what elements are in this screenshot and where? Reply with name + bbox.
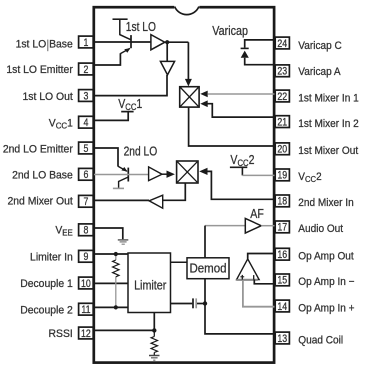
wire limiter to capacitor xyxy=(171,303,193,305)
pin 18 box xyxy=(275,195,289,208)
svg-text:RSSI: RSSI xyxy=(49,328,73,340)
1st mixer box xyxy=(180,87,199,107)
pin 1 box xyxy=(79,36,94,49)
pin 13 box xyxy=(275,332,289,345)
svg-text:Limiter: Limiter xyxy=(134,278,166,293)
wire buffer out xyxy=(165,41,189,43)
op-amp plus input lead xyxy=(241,275,243,280)
svg-text:1st LO Base: 1st LO Base xyxy=(16,38,73,50)
svg-text:17: 17 xyxy=(277,222,287,234)
svg-text:VCC1: VCC1 xyxy=(118,97,142,112)
pin 19 box xyxy=(275,169,289,182)
wire varicap to pin23 xyxy=(245,58,275,65)
buffer U5 left triangle xyxy=(149,195,163,208)
AF amp U6 triangle xyxy=(245,218,261,233)
svg-text:VEE: VEE xyxy=(55,224,73,237)
svg-text:9: 9 xyxy=(83,251,88,263)
wire pin1 to base and buffer xyxy=(94,41,151,43)
svg-text:20: 20 xyxy=(277,144,287,156)
wire limiter to demod xyxy=(171,261,188,263)
wire to 1st mixer top xyxy=(187,42,189,79)
arrow mixer in 1 xyxy=(200,91,207,98)
svg-text:Audio Out: Audio Out xyxy=(298,223,343,236)
wire AF out to pin17 gray xyxy=(261,225,274,227)
arrow mixer in 2 xyxy=(200,100,207,107)
buffer U2 triangle xyxy=(151,35,165,50)
resistor R2 stub xyxy=(153,330,155,336)
svg-text:22: 22 xyxy=(277,91,287,103)
Demod box xyxy=(187,258,229,279)
svg-text:1st LO Emitter: 1st LO Emitter xyxy=(6,64,73,76)
2nd mixer box xyxy=(177,161,198,183)
node dot pin11 xyxy=(114,305,118,309)
arrow into 1st mixer xyxy=(185,79,192,87)
VCC2 stem xyxy=(241,167,243,175)
VCC2 rail bar xyxy=(230,166,247,168)
ground VEE symbol xyxy=(118,240,129,244)
VCC1 rail bar xyxy=(121,111,133,113)
pin 4 box xyxy=(79,116,94,129)
svg-text:11: 11 xyxy=(81,304,91,316)
svg-text:1: 1 xyxy=(83,37,88,49)
pin 12 box xyxy=(79,327,94,340)
svg-text:Decouple 2: Decouple 2 xyxy=(20,304,73,316)
svg-text:8: 8 xyxy=(83,225,88,237)
svg-text:13: 13 xyxy=(277,333,287,345)
svg-text:VCC1: VCC1 xyxy=(49,117,73,130)
wire pin24 to varicap xyxy=(245,40,275,48)
wire buffer out xyxy=(162,173,168,175)
wire limiter bottom to RSSI node xyxy=(153,313,155,331)
svg-text:24: 24 xyxy=(277,38,287,50)
svg-text:2nd Mixer Out: 2nd Mixer Out xyxy=(7,195,72,207)
svg-text:1st Mixer In 2: 1st Mixer In 2 xyxy=(298,118,358,131)
wire to pin7 xyxy=(94,199,149,201)
buffer U3 down triangle xyxy=(160,61,174,75)
varicap D1 anode triangle xyxy=(241,51,249,58)
wire minus to pin15 xyxy=(254,280,274,284)
wire dot down to buffer2 xyxy=(166,42,168,61)
arrow into 2nd mixer xyxy=(167,171,175,178)
wire AF junction down to demod top xyxy=(204,226,206,258)
pin 17 box xyxy=(275,221,289,234)
IC body outline U1 xyxy=(94,7,274,362)
wire cap to node xyxy=(197,303,205,305)
wire buffer2 out to pin3 xyxy=(94,75,167,96)
pin 6 box xyxy=(79,168,94,181)
svg-text:1st Mixer Out: 1st Mixer Out xyxy=(298,145,358,158)
arrow into 2nd mixer right xyxy=(199,168,207,175)
svg-text:Op Amp In +: Op Amp In + xyxy=(298,302,354,315)
wire pin8 VEE xyxy=(94,228,123,239)
pin 21 box xyxy=(275,116,289,129)
wire pin12 RSSI xyxy=(94,329,154,331)
pin 3 box xyxy=(79,90,94,103)
wire demod to AF amp gray xyxy=(205,225,245,227)
notch erase xyxy=(174,5,199,10)
1st LO collector rail bar xyxy=(113,18,128,20)
wire pin9 to limiter xyxy=(94,253,128,255)
svg-text:VCC2: VCC2 xyxy=(298,171,321,185)
wire pin5 to emitter xyxy=(94,148,118,167)
op-amp base gray overlay xyxy=(236,279,257,281)
transistor Q2 base bar xyxy=(127,168,129,182)
node dot RSSI xyxy=(152,328,156,332)
op-amp U7 triangle xyxy=(237,259,260,280)
svg-text:Op Amp Out: Op Amp Out xyxy=(298,250,353,263)
node junction dot xyxy=(165,40,169,44)
svg-text:16: 16 xyxy=(277,249,287,261)
capacitor C1 left plate xyxy=(192,298,194,308)
transistor Q1 emitter with arrow xyxy=(120,48,129,53)
svg-text:Varicap C: Varicap C xyxy=(298,39,342,52)
text caret artifact xyxy=(47,40,49,52)
wire demod bottom to cap node xyxy=(204,279,206,304)
svg-text:21: 21 xyxy=(277,117,287,129)
svg-text:AF: AF xyxy=(250,207,264,221)
pin 9 box xyxy=(79,250,94,263)
svg-text:1st LO: 1st LO xyxy=(126,21,156,34)
svg-text:2nd LO: 2nd LO xyxy=(124,146,158,159)
pin 5 box xyxy=(79,142,94,155)
pin 10 box xyxy=(79,277,94,290)
svg-text:1st Mixer In 1: 1st Mixer In 1 xyxy=(298,92,358,105)
op-amp minus input lead xyxy=(253,275,255,280)
pin 15 box xyxy=(275,274,289,287)
capacitor C1 right plate gray xyxy=(195,298,197,308)
svg-text:2: 2 xyxy=(83,64,88,76)
svg-text:Quad Coil: Quad Coil xyxy=(298,334,343,347)
notch arc xyxy=(175,7,199,15)
wire pin11 to limiter xyxy=(94,306,128,308)
transistor Q2 emitter with arrow xyxy=(118,166,127,171)
resistor R1 zigzag xyxy=(113,260,119,277)
svg-text:6: 6 xyxy=(83,169,88,181)
pin 8 box xyxy=(79,224,94,237)
svg-text:7: 7 xyxy=(83,196,88,208)
wire pin6 gray through base xyxy=(94,174,149,176)
svg-text:2nd LO Emitter: 2nd LO Emitter xyxy=(3,143,73,155)
collector rail bar gray xyxy=(113,187,124,189)
resistor R2 bottom stub xyxy=(153,353,155,356)
wire 1st mixer out to pin20 xyxy=(189,107,275,146)
pin 16 box xyxy=(275,248,289,261)
wire op-amp out to pin16 xyxy=(248,254,275,259)
svg-text:Varicap A: Varicap A xyxy=(298,66,341,79)
svg-text:3: 3 xyxy=(83,90,88,102)
svg-text:5: 5 xyxy=(83,143,88,155)
svg-text:12: 12 xyxy=(81,328,91,340)
svg-text:19: 19 xyxy=(277,170,287,182)
wire node down to pin13 xyxy=(205,304,275,334)
wire VCC2 to pin19 gray xyxy=(242,174,274,176)
wire pin10 to limiter xyxy=(94,282,128,284)
buffer U4 triangle xyxy=(149,167,162,181)
pin 24 box xyxy=(275,37,289,50)
resistor R1 stubs gray xyxy=(115,254,117,260)
varicap D1 cathode bar xyxy=(241,47,249,49)
svg-text:4: 4 xyxy=(83,117,88,129)
svg-text:14: 14 xyxy=(277,301,287,313)
pin 23 box xyxy=(275,65,289,78)
svg-text:Demod: Demod xyxy=(189,261,226,276)
svg-text:23: 23 xyxy=(277,66,287,78)
wire VCC1 to pin4 xyxy=(94,112,128,121)
wire emitter down to pin2 xyxy=(94,53,120,65)
pin 22 box xyxy=(275,90,289,103)
wire collector vertical xyxy=(120,19,131,40)
ground RSSI symbol xyxy=(149,356,160,361)
svg-text:VCC2: VCC2 xyxy=(230,153,254,168)
pin 11 box xyxy=(79,303,94,316)
pin 14 box xyxy=(275,300,289,313)
wire pin18 to 2nd mixer xyxy=(208,171,275,199)
svg-text:2nd LO Base: 2nd LO Base xyxy=(12,169,73,181)
svg-text:Op Amp In −: Op Amp In − xyxy=(298,276,354,289)
transistor Q2 collector xyxy=(119,177,128,188)
svg-text:2nd Mixer In: 2nd Mixer In xyxy=(298,197,353,210)
pin 7 box xyxy=(79,195,94,208)
pin 2 box xyxy=(79,63,94,76)
wire 2nd mixer out down-left xyxy=(163,183,186,200)
wire plus to pin14 gray xyxy=(243,280,275,307)
svg-text:1st LO Out: 1st LO Out xyxy=(23,90,73,102)
transistor Q1 base bar xyxy=(130,35,132,48)
svg-text:18: 18 xyxy=(277,196,287,208)
svg-text:Decouple 1: Decouple 1 xyxy=(20,278,73,290)
node quad coil junction dot xyxy=(203,301,207,305)
pin 20 box xyxy=(275,143,289,156)
resistor R2 zigzag xyxy=(151,337,157,353)
Limiter box xyxy=(128,253,171,313)
node dot pin9 xyxy=(114,252,118,256)
svg-text:Varicap: Varicap xyxy=(212,23,248,38)
svg-text:10: 10 xyxy=(81,278,91,290)
svg-text:15: 15 xyxy=(277,275,287,287)
svg-text:Limiter In: Limiter In xyxy=(30,251,73,263)
wire pin22 gray xyxy=(208,93,275,95)
wire pin21 to mixer xyxy=(208,104,275,117)
